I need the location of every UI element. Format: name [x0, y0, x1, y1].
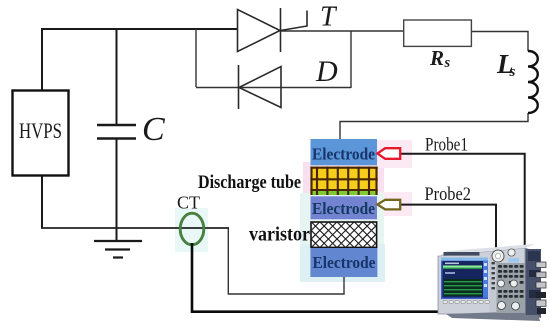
svg-text:Probe1: Probe1 — [425, 135, 468, 156]
svg-text:CT: CT — [177, 193, 200, 213]
svg-text:s: s — [509, 64, 516, 80]
svg-text:Probe2: Probe2 — [425, 184, 472, 205]
svg-text:T: T — [320, 2, 338, 33]
svg-text:Electrode: Electrode — [312, 199, 375, 218]
svg-text:R: R — [429, 46, 444, 70]
svg-text:Electrode: Electrode — [312, 145, 375, 164]
svg-text:Discharge tube: Discharge tube — [198, 172, 301, 193]
svg-text:Electrode: Electrode — [313, 253, 376, 272]
svg-text:C: C — [142, 111, 165, 148]
svg-text:s: s — [444, 55, 451, 71]
svg-text:D: D — [315, 55, 338, 88]
svg-text:varistor: varistor — [249, 224, 310, 246]
svg-text:HVPS: HVPS — [19, 118, 62, 143]
